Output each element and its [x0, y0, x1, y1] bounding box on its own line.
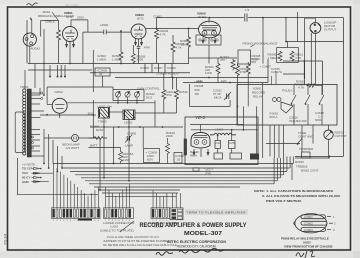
svg-text:VAC: VAC: [22, 171, 29, 175]
svg-text:1/2 WATT: 1/2 WATT: [66, 146, 79, 150]
svg-text:4.7K: 4.7K: [298, 86, 304, 90]
svg-text:GAIN CONTROL: GAIN CONTROL: [137, 87, 160, 91]
svg-text:.02: .02: [176, 158, 181, 162]
svg-text:PER VOLT METER.: PER VOLT METER.: [266, 199, 302, 203]
svg-text:.47M: .47M: [143, 46, 150, 50]
svg-text:LAMP: LAMP: [125, 144, 133, 148]
svg-text:V2602: V2602: [54, 90, 63, 94]
svg-text:RELAY: RELAY: [253, 95, 263, 99]
svg-text:YE-3: YE-3: [195, 115, 206, 120]
svg-text:C2603: C2603: [304, 228, 313, 232]
svg-text:C2601: C2601: [304, 215, 313, 219]
svg-text:L2602: L2602: [100, 23, 109, 27]
svg-text:RIDING HOOK BALANCE: RIDING HOOK BALANCE: [243, 42, 278, 46]
svg-text:1/2W: 1/2W: [123, 158, 130, 162]
svg-text:LUGS: LUGS: [155, 225, 163, 229]
svg-text:MODEL-307: MODEL-307: [184, 231, 222, 237]
svg-text:MICA: MICA: [214, 96, 222, 100]
svg-text:220K: 220K: [181, 43, 188, 47]
svg-text:T2601: T2601: [20, 85, 29, 89]
svg-text:C2606: C2606: [167, 66, 176, 70]
svg-text:R2607: R2607: [154, 66, 163, 70]
svg-text:L2604: L2604: [215, 128, 224, 132]
svg-text:500-A: 500-A: [270, 115, 278, 119]
svg-text:C2605: C2605: [140, 66, 149, 70]
svg-text:C26: C26: [216, 141, 222, 145]
svg-text:VALUES 200: VALUES 200: [289, 119, 307, 123]
svg-text:REDWOOD CITY, CALIFORNIA: REDWOOD CITY, CALIFORNIA: [177, 244, 217, 248]
svg-text:250: 250: [167, 93, 172, 97]
svg-text:6/2V: 6/2V: [147, 158, 153, 162]
svg-text:5K'S: 5K'S: [146, 96, 152, 100]
svg-text:220K: 220K: [166, 134, 173, 138]
svg-text:+ C2607: + C2607: [260, 65, 272, 69]
svg-text:6072: 6072: [137, 17, 144, 21]
svg-text:(CABLE TO TOP PLATE): (CABLE TO TOP PLATE): [100, 229, 134, 233]
svg-text:BASS CONT.: BASS CONT.: [301, 169, 319, 173]
svg-text:C2617A: C2617A: [271, 70, 282, 74]
svg-text:500: 500: [251, 60, 256, 64]
svg-text:3300: 3300: [137, 58, 144, 62]
svg-text:AUDIO: AUDIO: [31, 47, 41, 51]
svg-text:TERM TO FLEXIBLE AMPLIFIER: TERM TO FLEXIBLE AMPLIFIER: [187, 211, 247, 215]
svg-text:4.7K: 4.7K: [295, 56, 301, 60]
svg-text:GND: GND: [22, 180, 30, 184]
svg-text:VIEW FROM BOTTOM OF CHASSI: VIEW FROM BOTTOM OF CHASSIS: [284, 244, 333, 248]
svg-text:600V: 600V: [315, 118, 322, 122]
svg-text:OF METER WALLS CALL DO AUGET F: OF METER WALLS CALL DO AUGET FILE HUB CY…: [103, 243, 177, 247]
svg-text:NOTE: 1. ALL CAPACITORS IN MI: NOTE: 1. ALL CAPACITORS IN MICROFARADS: [254, 189, 333, 193]
svg-text:POLE-1: POLE-1: [282, 89, 293, 93]
svg-text:T2603: T2603: [98, 120, 107, 124]
svg-text:3W: 3W: [195, 92, 200, 96]
svg-text:BATT: BATT: [90, 144, 98, 148]
svg-text:C2605B 40 600V: C2605B 40 600V: [156, 72, 179, 76]
svg-text:1.5: 1.5: [245, 8, 250, 12]
svg-text:L2601: L2601: [124, 121, 133, 125]
svg-text:230V: 230V: [77, 16, 84, 20]
svg-text:TO 117: TO 117: [22, 167, 32, 171]
svg-text:6CM7: 6CM7: [198, 15, 206, 19]
svg-text:1 MEG: 1 MEG: [268, 56, 278, 60]
svg-text:OUTPUT: OUTPUT: [324, 28, 337, 32]
svg-text:C2602: C2602: [304, 221, 313, 225]
svg-text:R2617: R2617: [96, 128, 105, 132]
svg-text:4700: 4700: [240, 70, 247, 74]
svg-text:CONT AND: CONT AND: [298, 135, 314, 139]
svg-text:E2C: E2C: [221, 79, 228, 83]
svg-text:40: 40: [99, 72, 103, 76]
svg-text:47K: 47K: [220, 58, 225, 62]
svg-text:2. ALL KILOVOLTS MEASURED WITH: 2. ALL KILOVOLTS MEASURED WITH 20,000: [262, 194, 340, 198]
svg-text:R2616: R2616: [179, 90, 188, 94]
svg-text:6072: 6072: [66, 15, 73, 19]
svg-text:1 MEG: 1 MEG: [112, 58, 122, 62]
svg-text:1/2W: 1/2W: [205, 71, 212, 75]
svg-text:1 MEG: 1 MEG: [97, 58, 107, 62]
svg-text:OUTPUT: OUTPUT: [335, 134, 348, 138]
svg-text:C2608: C2608: [127, 132, 136, 136]
svg-text:C26: C26: [229, 141, 235, 145]
svg-text:PG 2/4: PG 2/4: [4, 234, 8, 245]
svg-text:TRIMMER: TRIMMER: [299, 147, 314, 151]
svg-text:7.5V: 7.5V: [205, 172, 211, 176]
svg-text:300: 300: [88, 112, 93, 116]
svg-text:LOWER CONNECTOR: LOWER CONNECTOR: [148, 221, 180, 225]
svg-text:4.7K: 4.7K: [160, 33, 166, 37]
svg-text:990A: 990A: [190, 154, 197, 158]
svg-text:TREBLE: TREBLE: [296, 164, 308, 168]
